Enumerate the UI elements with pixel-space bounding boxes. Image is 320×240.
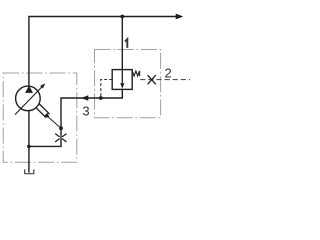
svg-text:3: 3 <box>82 104 89 119</box>
svg-text:2: 2 <box>164 65 171 80</box>
